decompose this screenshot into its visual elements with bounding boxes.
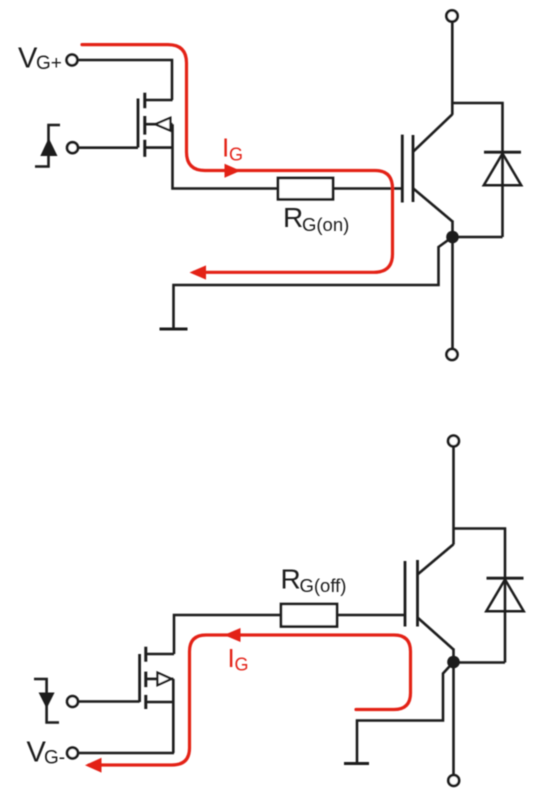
wire Q1 emitter to node (451, 221, 454, 238)
pulse input symbol (falling edge) (34, 679, 59, 723)
label RG(on) (283, 202, 349, 235)
wire RG(off) to Q2 gate (337, 614, 405, 617)
transistor M2 (driver P-MOSFET) (140, 647, 174, 709)
resistor RG(on) (278, 178, 333, 199)
transistor Q1 (IGBT) (402, 114, 452, 221)
label VG- (27, 737, 66, 769)
wire top terminal to Q2 collector (452, 447, 455, 545)
diode D1 (freewheeling) (484, 151, 521, 237)
svg-text:R: R (283, 202, 303, 233)
red arrow return (leftward, end of path) (190, 265, 207, 279)
red current path IG (turn-off loop) (89, 635, 411, 765)
label VG+ (18, 43, 62, 75)
transistor M1 (driver N-MOSFET) (138, 93, 173, 157)
diode D2 (freewheeling) (486, 578, 523, 663)
wire VG+ to M1 drain (78, 60, 173, 100)
red current path IG (turn-on loop) (82, 45, 393, 273)
label RG(off) (281, 564, 347, 597)
terminal top (collector supply) (446, 10, 457, 21)
svg-text:G+: G+ (36, 53, 62, 74)
label IG (top, red) (222, 133, 243, 165)
wire emitter node to bottom terminal (452, 662, 455, 775)
wire Q2 emitter to node (452, 649, 455, 663)
pulse input symbol (rising edge) (35, 125, 60, 167)
ground (top circuit) (160, 328, 188, 331)
wire Q1 collector to top terminal (451, 22, 454, 115)
wire input to M1 gate (78, 146, 138, 149)
svg-text:R: R (281, 564, 301, 595)
wire M1 source/body down to gate resistor rail (173, 124, 279, 188)
wire collector node to D2 cathode (454, 529, 506, 579)
ground (bottom circuit) (344, 762, 369, 765)
wire D1 anode to emitter node (456, 236, 503, 239)
wire RG(on) to Q1 gate (333, 187, 402, 190)
wire M2 source/body down to VG- rail (172, 679, 175, 753)
junction emitter node (top) (446, 231, 459, 244)
svg-text:G: G (229, 145, 243, 165)
terminal bottom (bottom circuit) (448, 775, 459, 786)
wire collector node to D1 cathode (452, 103, 502, 151)
terminal VG+ (67, 55, 78, 66)
wire RG(off) to M2 drain (174, 615, 281, 654)
label IG (bottom, red) (228, 643, 249, 675)
svg-text:G: G (235, 655, 249, 675)
wire emitter node to ground rail (bottom) (357, 662, 454, 762)
wire input to M2 gate (78, 700, 140, 703)
svg-text:G(off): G(off) (300, 575, 347, 596)
svg-text:V: V (18, 43, 38, 75)
terminal input (top driver) (67, 142, 78, 153)
resistor RG(off) (281, 604, 337, 627)
wire emitter node to bottom terminal (451, 237, 454, 349)
red arrow return (leftward, end of path) (85, 758, 102, 773)
terminal top (bottom circuit) (448, 436, 459, 447)
red arrow IG (rightward, mid path) (225, 164, 241, 178)
terminal bottom (top circuit) (447, 349, 458, 360)
transistor Q2 (IGBT) (405, 544, 454, 649)
svg-text:G(on): G(on) (302, 214, 349, 235)
red arrow IG (leftward, mid path) (224, 628, 241, 642)
terminal VG- (67, 748, 78, 759)
wire VG- to M2 source (78, 752, 174, 755)
terminal input (bottom driver) (67, 696, 78, 707)
wire emitter node to ground rail (174, 237, 453, 328)
wire D2 anode to emitter node (457, 661, 505, 664)
junction emitter node (bottom) (447, 656, 460, 669)
svg-text:G-: G- (44, 748, 65, 769)
